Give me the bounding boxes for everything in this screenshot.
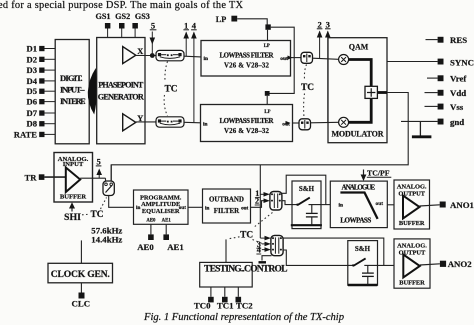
- wire S&H2 to buffer 2: [378, 264, 395, 266]
- wire adder output loop to lower test line: [111, 93, 408, 182]
- svg-text:TC: TC: [90, 210, 103, 220]
- svg-text:D4: D4: [26, 76, 37, 86]
- block lowpass filter 2: [201, 105, 293, 142]
- multiplexer 2: [271, 235, 283, 255]
- wire adder output (thick): [377, 91, 387, 94]
- svg-text:TC0: TC0: [194, 301, 211, 311]
- svg-text:D7: D7: [26, 108, 37, 118]
- svg-text:3: 3: [326, 19, 330, 29]
- pin ANO1: [420, 200, 474, 210]
- svg-text:in: in: [205, 205, 209, 211]
- svg-text:FILTER: FILTER: [214, 207, 240, 215]
- svg-text:DIGIT.: DIGIT.: [60, 73, 83, 83]
- svg-text:4: 4: [257, 246, 261, 255]
- pin TR: [25, 173, 66, 183]
- svg-text:gnd: gnd: [450, 117, 464, 127]
- switch TC upper (I path): [156, 50, 184, 60]
- svg-text:out: out: [376, 201, 384, 207]
- wire switch to multiplier 2: [311, 121, 339, 124]
- block analog output buffer 2: [394, 239, 430, 288]
- block clock generator: [48, 240, 113, 282]
- wire analogue lowpass to buffer 1: [387, 204, 394, 206]
- node LP junction square 1: [265, 24, 270, 29]
- ground symbol: [412, 121, 432, 136]
- svg-text:MODULATOR: MODULATOR: [332, 130, 384, 139]
- switch TC lower (Q path): [156, 117, 184, 127]
- svg-text:ed for a special purpose DSP.: ed for a special purpose DSP. The main g…: [0, 0, 243, 11]
- svg-text:GENERATOR: GENERATOR: [98, 92, 144, 101]
- pin D4: [26, 76, 55, 86]
- svg-text:LP: LP: [216, 15, 226, 24]
- pin Vss: [425, 102, 464, 112]
- node junction dot X output: [150, 53, 155, 58]
- wire multiplexer1 bypass over S&H: [282, 175, 326, 204]
- svg-text:in: in: [339, 203, 344, 209]
- label 57.6kHz 14.4kHz: [91, 226, 122, 245]
- switch test loop (5): [103, 178, 114, 195]
- svg-text:BUFFER: BUFFER: [399, 279, 425, 286]
- node TC control label (mux pair): [229, 213, 273, 244]
- block lowpass filter 1: [201, 41, 291, 77]
- node TC control label (right switch pair): [301, 65, 314, 118]
- svg-text:ANO1: ANO1: [450, 200, 474, 210]
- adder: [365, 86, 377, 98]
- block sample and hold 2: [348, 241, 378, 286]
- block analog input buffer: [54, 153, 93, 203]
- pin ANO2: [420, 259, 472, 269]
- svg-text:TC: TC: [240, 230, 253, 240]
- svg-text:in: in: [203, 122, 208, 128]
- svg-text:ANALOGUE: ANALOGUE: [342, 184, 376, 192]
- wire multiplexer1 to S&H: [282, 201, 292, 205]
- svg-text:Fig. 1 Functional representati: Fig. 1 Functional representation of the …: [143, 312, 344, 323]
- svg-text:D2: D2: [26, 54, 37, 64]
- pin AE0: [137, 224, 154, 252]
- svg-text:LOWPASS: LOWPASS: [340, 216, 371, 224]
- block sample and hold 1: [291, 181, 322, 229]
- wire X output to switch: [136, 55, 156, 57]
- svg-text:V26 & V28–32: V26 & V28–32: [224, 128, 270, 135]
- node LP junction square 2: [265, 91, 270, 96]
- svg-text:out: out: [241, 205, 248, 211]
- svg-text:in: in: [136, 205, 140, 211]
- block digital input interface: [55, 40, 89, 144]
- wire switch to lowpass filter 1: [184, 55, 201, 58]
- wire equaliser to outband filter: [188, 206, 203, 208]
- svg-text:D5: D5: [26, 86, 37, 96]
- pin GS1: [95, 12, 110, 38]
- node TC control label (test switch): [82, 198, 107, 221]
- svg-text:PHASEPOINT: PHASEPOINT: [98, 81, 144, 90]
- wire Y output to switch: [136, 121, 156, 123]
- multiplier X upper: [339, 55, 349, 65]
- svg-text:in: in: [204, 56, 209, 62]
- pin CLC: [72, 283, 91, 309]
- wire filter2 out to switch: [286, 121, 300, 125]
- wire buffer output: [80, 177, 105, 179]
- svg-text:TC/PF: TC/PF: [367, 168, 390, 177]
- svg-text:AE0: AE0: [146, 218, 156, 223]
- pin AE1: [163, 224, 183, 252]
- test point 5 buffer: [96, 156, 102, 178]
- svg-text:TC2: TC2: [236, 301, 253, 311]
- test point 1 top: [183, 20, 189, 56]
- svg-text:out: out: [280, 56, 288, 62]
- block programmable amplitude equaliser: [134, 190, 189, 224]
- svg-text:Vdd: Vdd: [450, 88, 466, 98]
- svg-text:BUFFER: BUFFER: [60, 193, 87, 200]
- pin D6: [26, 97, 55, 107]
- svg-text:GS3: GS3: [135, 12, 150, 21]
- svg-text:LP: LP: [264, 44, 270, 49]
- pin LP: [216, 15, 237, 24]
- wire switch to lowpass filter 2: [184, 121, 201, 124]
- svg-text:TESTING..CONTROL: TESTING..CONTROL: [204, 264, 288, 275]
- wire multiplexer2 bypass over S&H2: [283, 238, 384, 265]
- svg-text:ANO2: ANO2: [448, 259, 473, 269]
- svg-text:D8: D8: [26, 119, 37, 129]
- svg-text:GS1: GS1: [95, 12, 110, 21]
- svg-text:TC: TC: [164, 85, 177, 95]
- svg-text:TC1: TC1: [217, 301, 234, 311]
- svg-text:GS2: GS2: [115, 12, 130, 21]
- svg-text:SHI: SHI: [64, 212, 81, 223]
- svg-text:RATE: RATE: [14, 129, 38, 139]
- wire SYNC output: [387, 61, 438, 63]
- wire multiplexer2 to S&H2: [283, 250, 348, 265]
- svg-text:TC: TC: [301, 83, 314, 93]
- label TC/PF: [361, 168, 392, 181]
- svg-text:RES: RES: [450, 35, 467, 45]
- wire multiplier 1 to adder (thick): [349, 60, 372, 87]
- amplifier X: [123, 47, 144, 64]
- node TC control label (switch pair): [164, 62, 178, 117]
- pin TC0: [194, 287, 214, 311]
- wire test tap into multiplexer 2: [260, 236, 271, 241]
- switch TC right lower: [299, 119, 311, 130]
- block testing control: [200, 239, 288, 287]
- svg-text:2: 2: [255, 197, 259, 206]
- pin TC2: [236, 287, 254, 311]
- block QAM modulator: [328, 38, 387, 143]
- svg-text:V26 & V28–32: V26 & V28–32: [224, 62, 270, 69]
- bus wedge arrow between interface and generator: [88, 68, 97, 115]
- wire filter1 out to switch: [288, 56, 302, 60]
- multiplier X lower: [339, 117, 349, 127]
- svg-text:QAM: QAM: [349, 43, 369, 52]
- pin GS3: [132, 12, 150, 38]
- test point 2 top: [317, 19, 323, 58]
- multiplexer 1: [270, 192, 282, 211]
- block outband filter: [203, 189, 251, 223]
- wire multiplexer 2 stub and bar: [259, 256, 272, 263]
- svg-text:AE0: AE0: [137, 242, 154, 252]
- svg-text:4: 4: [192, 20, 197, 30]
- svg-text:S&H: S&H: [355, 245, 371, 253]
- pin RES: [426, 35, 468, 45]
- svg-text:LP: LP: [264, 110, 270, 115]
- switch TC right upper: [301, 52, 313, 63]
- svg-text:Vref: Vref: [450, 74, 467, 84]
- pin SYNC: [438, 57, 474, 67]
- pin Vdd: [425, 88, 467, 98]
- svg-text:1: 1: [184, 20, 188, 30]
- block analog output buffer 1: [394, 180, 430, 229]
- svg-text:CLC: CLC: [72, 299, 91, 309]
- svg-text:D1: D1: [26, 44, 37, 54]
- test point 3 top: [325, 19, 331, 122]
- svg-text:X: X: [137, 47, 143, 56]
- svg-text:TR: TR: [25, 173, 38, 183]
- svg-text:OUTBAND: OUTBAND: [209, 196, 244, 204]
- svg-text:BUFFER: BUFFER: [399, 220, 425, 227]
- test point 4 top: [191, 20, 197, 122]
- pin TC1: [217, 287, 234, 311]
- pin D8: [26, 119, 55, 129]
- svg-text:AE1: AE1: [167, 242, 184, 252]
- label test point 2: [255, 197, 270, 206]
- label test point 1: [255, 189, 270, 198]
- svg-text:AE1: AE1: [162, 218, 172, 223]
- svg-text:S&H: S&H: [299, 185, 315, 193]
- wire LP net: [237, 19, 294, 105]
- pin GS2: [115, 12, 130, 38]
- svg-text:14.4kHz: 14.4kHz: [91, 235, 122, 245]
- svg-text:2: 2: [317, 19, 321, 29]
- pin D2: [26, 54, 55, 64]
- svg-text:EQUALISER: EQUALISER: [142, 208, 180, 215]
- svg-text:CLOCK GEN.: CLOCK GEN.: [51, 269, 110, 280]
- pin D7: [26, 108, 55, 118]
- pin RATE: [14, 129, 55, 139]
- test point 5 top: [150, 20, 157, 55]
- wire outband filter to multiplexer: [251, 201, 264, 208]
- wire test line tap: [259, 165, 261, 238]
- wire S&H1 to analogue lowpass: [321, 204, 330, 206]
- label test point 4: [256, 246, 271, 255]
- wire switch down to equaliser: [109, 196, 134, 208]
- pin D5: [26, 86, 55, 96]
- pin SHI: [64, 202, 81, 223]
- amplifier Y: [123, 114, 144, 131]
- svg-text:5: 5: [96, 156, 100, 166]
- pin D1: [26, 44, 55, 54]
- label test point 3: [256, 240, 271, 249]
- pin Vref: [427, 74, 467, 84]
- svg-text:LOWPASS FILTER: LOWPASS FILTER: [220, 52, 275, 59]
- pin D3: [26, 65, 55, 75]
- svg-text:out: out: [179, 205, 186, 211]
- pin gnd: [401, 117, 464, 127]
- svg-text:5: 5: [151, 20, 155, 30]
- block analogue lowpass: [330, 181, 387, 228]
- svg-text:INTERF.: INTERF.: [60, 96, 86, 106]
- svg-text:D6: D6: [26, 97, 37, 107]
- svg-text:Vss: Vss: [450, 102, 464, 112]
- svg-text:LOWPASS FILTER: LOWPASS FILTER: [220, 118, 275, 125]
- svg-text:SYNC: SYNC: [450, 57, 474, 67]
- wire switch to test line: [110, 165, 112, 181]
- svg-text:INPUT–: INPUT–: [60, 85, 85, 95]
- wire switch to multiplier 1: [313, 58, 339, 59]
- svg-text:D3: D3: [26, 65, 37, 75]
- block phasepoint generator: [97, 38, 145, 144]
- wire multiplier 2 to adder (thick): [349, 98, 372, 122]
